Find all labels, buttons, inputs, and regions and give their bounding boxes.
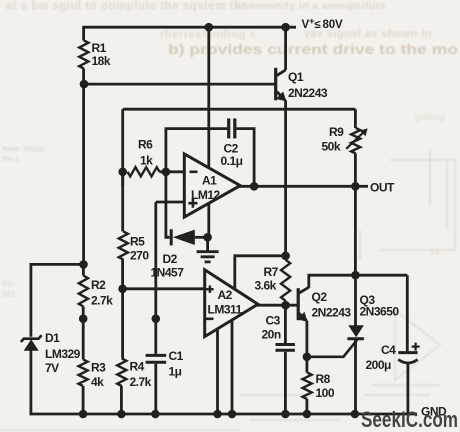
label A1 minus pin [190,171,198,174]
wire R2 to node [82,307,85,319]
wire C2 loop left [166,129,227,172]
resistor R4 [117,359,126,387]
svg-text:LM311: LM311 [208,303,243,317]
node V+ junction at Q1 collector [281,23,290,32]
thyristor Q3 gate [307,340,357,357]
wire output feedback drop [121,109,124,186]
node R5 bottom junction [118,285,127,294]
wire R4 to rail [120,386,123,414]
node R1 bottom junction [80,80,89,89]
wire top rail corner to R1 [82,26,85,41]
wire A1 plus drop [154,202,157,319]
svg-text:2N3650: 2N3650 [360,305,400,319]
wire C2 loop right [236,129,254,187]
svg-text:the L: the L [2,154,20,163]
diode D1 zener bar [21,335,42,342]
resistor R1 [79,41,88,69]
svg-text:R9: R9 [329,125,344,139]
node C1 top junction [152,314,161,323]
svg-text:grilling: grilling [415,112,445,122]
svg-text:R4: R4 [130,360,145,374]
node A2 pin ground junction right [228,410,237,419]
node OUT junction [351,182,360,191]
svg-text:7V: 7V [45,361,59,375]
node C3 ground junction [281,410,290,419]
svg-text:R2: R2 [91,278,106,292]
transistor Q2 base bar [297,288,300,320]
capacitor C4 curved plate [398,360,417,364]
svg-text:18k: 18k [92,54,111,68]
transistor Q1 collector [277,70,286,76]
svg-text:C1: C1 [169,349,184,363]
wire R9 top [354,109,357,128]
wire A2 gnd pin left [216,329,219,414]
node A2 output junction [281,301,290,310]
svg-text:LM12: LM12 [191,188,221,202]
wire output node horizontal [123,108,356,111]
wire D2 anode [195,236,208,239]
svg-text:100: 100 [316,386,335,400]
transistor Q2 collector [299,287,309,293]
resistor R5 [119,232,128,260]
node V+ junction at x=209 [205,23,214,32]
svg-text:3.6k: 3.6k [255,279,277,293]
wire A1 output [239,185,355,188]
transistor Q1 emitter arrow [276,92,286,102]
capacitor C3 bottom plate [276,349,295,352]
wire R8 top [305,357,308,373]
resistor R3 [79,360,88,387]
variable arrow of R9 [346,131,365,149]
wire R1 to node [82,69,85,85]
capacitor C1 bottom plate [146,361,167,364]
svg-text:1μ: 1μ [169,365,182,379]
thyristor Q3 cathode bar [347,337,364,340]
label A2 plus pin [206,286,213,293]
node R6 left junction [118,168,127,177]
diode D1 triangle [24,339,39,351]
svg-text:R3: R3 [91,361,106,375]
node R3 ground junction [79,410,88,419]
wire R3 top [82,319,85,360]
resistor R8 [303,373,312,400]
svg-text:R8: R8 [316,372,331,386]
diode D2 cathode bar [170,229,173,245]
capacitor C3 top plate [276,343,295,346]
ground [197,237,219,262]
node R7 top junction [281,252,290,261]
wire R6 node to R5 [121,172,124,232]
node Q3 anode junction [351,271,360,280]
svg-text:R7: R7 [264,265,279,279]
wire D2 drop [166,172,170,238]
node A1 output junction [250,182,259,191]
wire OUT stub [355,185,368,188]
wire D1 branch [31,264,84,336]
node R8 ground junction [303,410,312,419]
diode D2 triangle [173,230,195,245]
transistor Q1 emitter [277,92,285,101]
svg-text:Note: Suppl: Note: Suppl [2,144,44,153]
svg-text:R6: R6 [138,138,153,152]
svg-text:1k: 1k [140,154,153,168]
svg-text:SeekIC.com: SeekIC.com [361,407,458,432]
svg-text:20n: 20n [262,328,281,342]
svg-text:R1: R1 [92,41,107,55]
svg-text:2N2243: 2N2243 [312,306,352,320]
transistor Q2 emitter arrow [298,312,308,322]
capacitor C2 left plate [227,118,230,138]
wire D1 to rail [29,351,32,416]
label A2 minus pin [206,317,214,320]
node R8 junction [303,353,312,362]
wire OUT to Q3 [354,186,357,275]
svg-text:A1: A1 [202,174,217,188]
svg-text:Q1: Q1 [288,70,304,84]
svg-text:D1: D1 [45,331,60,345]
svg-text:50k: 50k [322,140,341,154]
wire C3 top [284,305,287,343]
wire Q1 emitter drop [284,100,287,256]
thyristor Q3 triangle [348,325,364,337]
svg-text:V+≤ 80V: V+≤ 80V [302,16,343,31]
wire Q3 anode [354,275,357,325]
wire A1 plus input [156,201,185,204]
wire Q2 emitter drop [305,321,308,357]
wire C1 top [154,319,157,354]
svg-text:2.7k: 2.7k [130,375,152,389]
wire Q1 collector drop [284,27,287,70]
wire C1 to rail [154,364,157,414]
svg-text:270: 270 [130,249,149,263]
svg-text:200μ: 200μ [366,358,392,372]
svg-text:b) provides current drive to t: b) provides current drive to the mo [168,42,458,57]
wire V+ top rail [84,26,296,29]
svg-text:Q2: Q2 [312,290,328,304]
svg-text:LM329: LM329 [45,347,81,361]
wire C3 to rail [284,352,287,414]
capacitor C4 plus plate [398,351,417,354]
resistor R2 [79,276,88,307]
wire ground rail [30,413,417,416]
svg-text:A2: A2 [218,288,233,302]
wire R3 to rail [82,386,85,414]
svg-text:1N457: 1N457 [151,266,185,280]
wire A2 plus input [123,287,205,290]
transistor Q2 emitter [299,313,307,320]
wire A2 strobe [235,256,286,291]
wire left vertical run [82,84,85,264]
label A1 plus pin [188,199,197,208]
op-amp A2 [205,270,258,337]
svg-text:at s bw sgnd to oomplute t: at s bw sgnd to oomplute the sqstem tht [6,1,246,13]
node R4 ground junction [117,410,126,419]
wire R8 to rail [305,399,308,414]
wire R5 to node [121,260,124,289]
wire R7 bottom [284,301,287,305]
svg-text:D2: D2 [163,252,178,266]
node C1 ground junction [151,410,160,419]
resistor R6 [128,167,160,176]
wire to R2 [82,264,85,275]
wire A2 output [257,304,299,307]
wire C4 to rail [406,363,409,414]
svg-text:0.1μ: 0.1μ [221,154,243,168]
svg-text:C3: C3 [266,314,281,328]
wire C4 top [406,275,409,351]
wire R9 bottom [354,154,357,187]
node A2 pin ground junction left [213,410,222,419]
node D2 ground junction [203,233,212,242]
node D1 branch junction [79,260,88,269]
svg-text:093: 093 [2,290,16,299]
op-amp A1 [184,154,240,217]
svg-text:2.7k: 2.7k [91,294,113,308]
wire Q2 collector up [309,275,408,288]
wire Q3 cathode to rail [354,340,357,414]
capacitor C2 right plate [233,118,236,138]
wire A2 gnd pin right [231,320,234,414]
svg-text:2N2243: 2N2243 [288,86,328,100]
wire V+ branch vertical [207,27,210,237]
svg-text:C4: C4 [381,343,396,357]
svg-text:community in a annupcifuts: community in a annupcifuts [236,0,386,12]
svg-text:4k: 4k [91,375,104,389]
resistor R7 [281,260,290,301]
wire R5 node to R4 [121,289,124,359]
node R2-R3 junction [79,314,88,323]
label C4 plus sign [412,343,420,351]
svg-text:PS: PS [2,280,13,289]
wire R6 to A1 minus [160,170,185,173]
capacitor C1 top plate [146,354,167,357]
wire Q1 base [84,83,275,86]
svg-text:OUT: OUT [370,181,395,195]
node C2 loop junction [162,168,171,177]
svg-text:R5: R5 [130,235,145,249]
resistor R9 [351,128,360,154]
svg-text:10: 10 [430,247,440,257]
transistor Q1 base bar [274,68,277,101]
node Q3 ground junction [351,410,360,419]
